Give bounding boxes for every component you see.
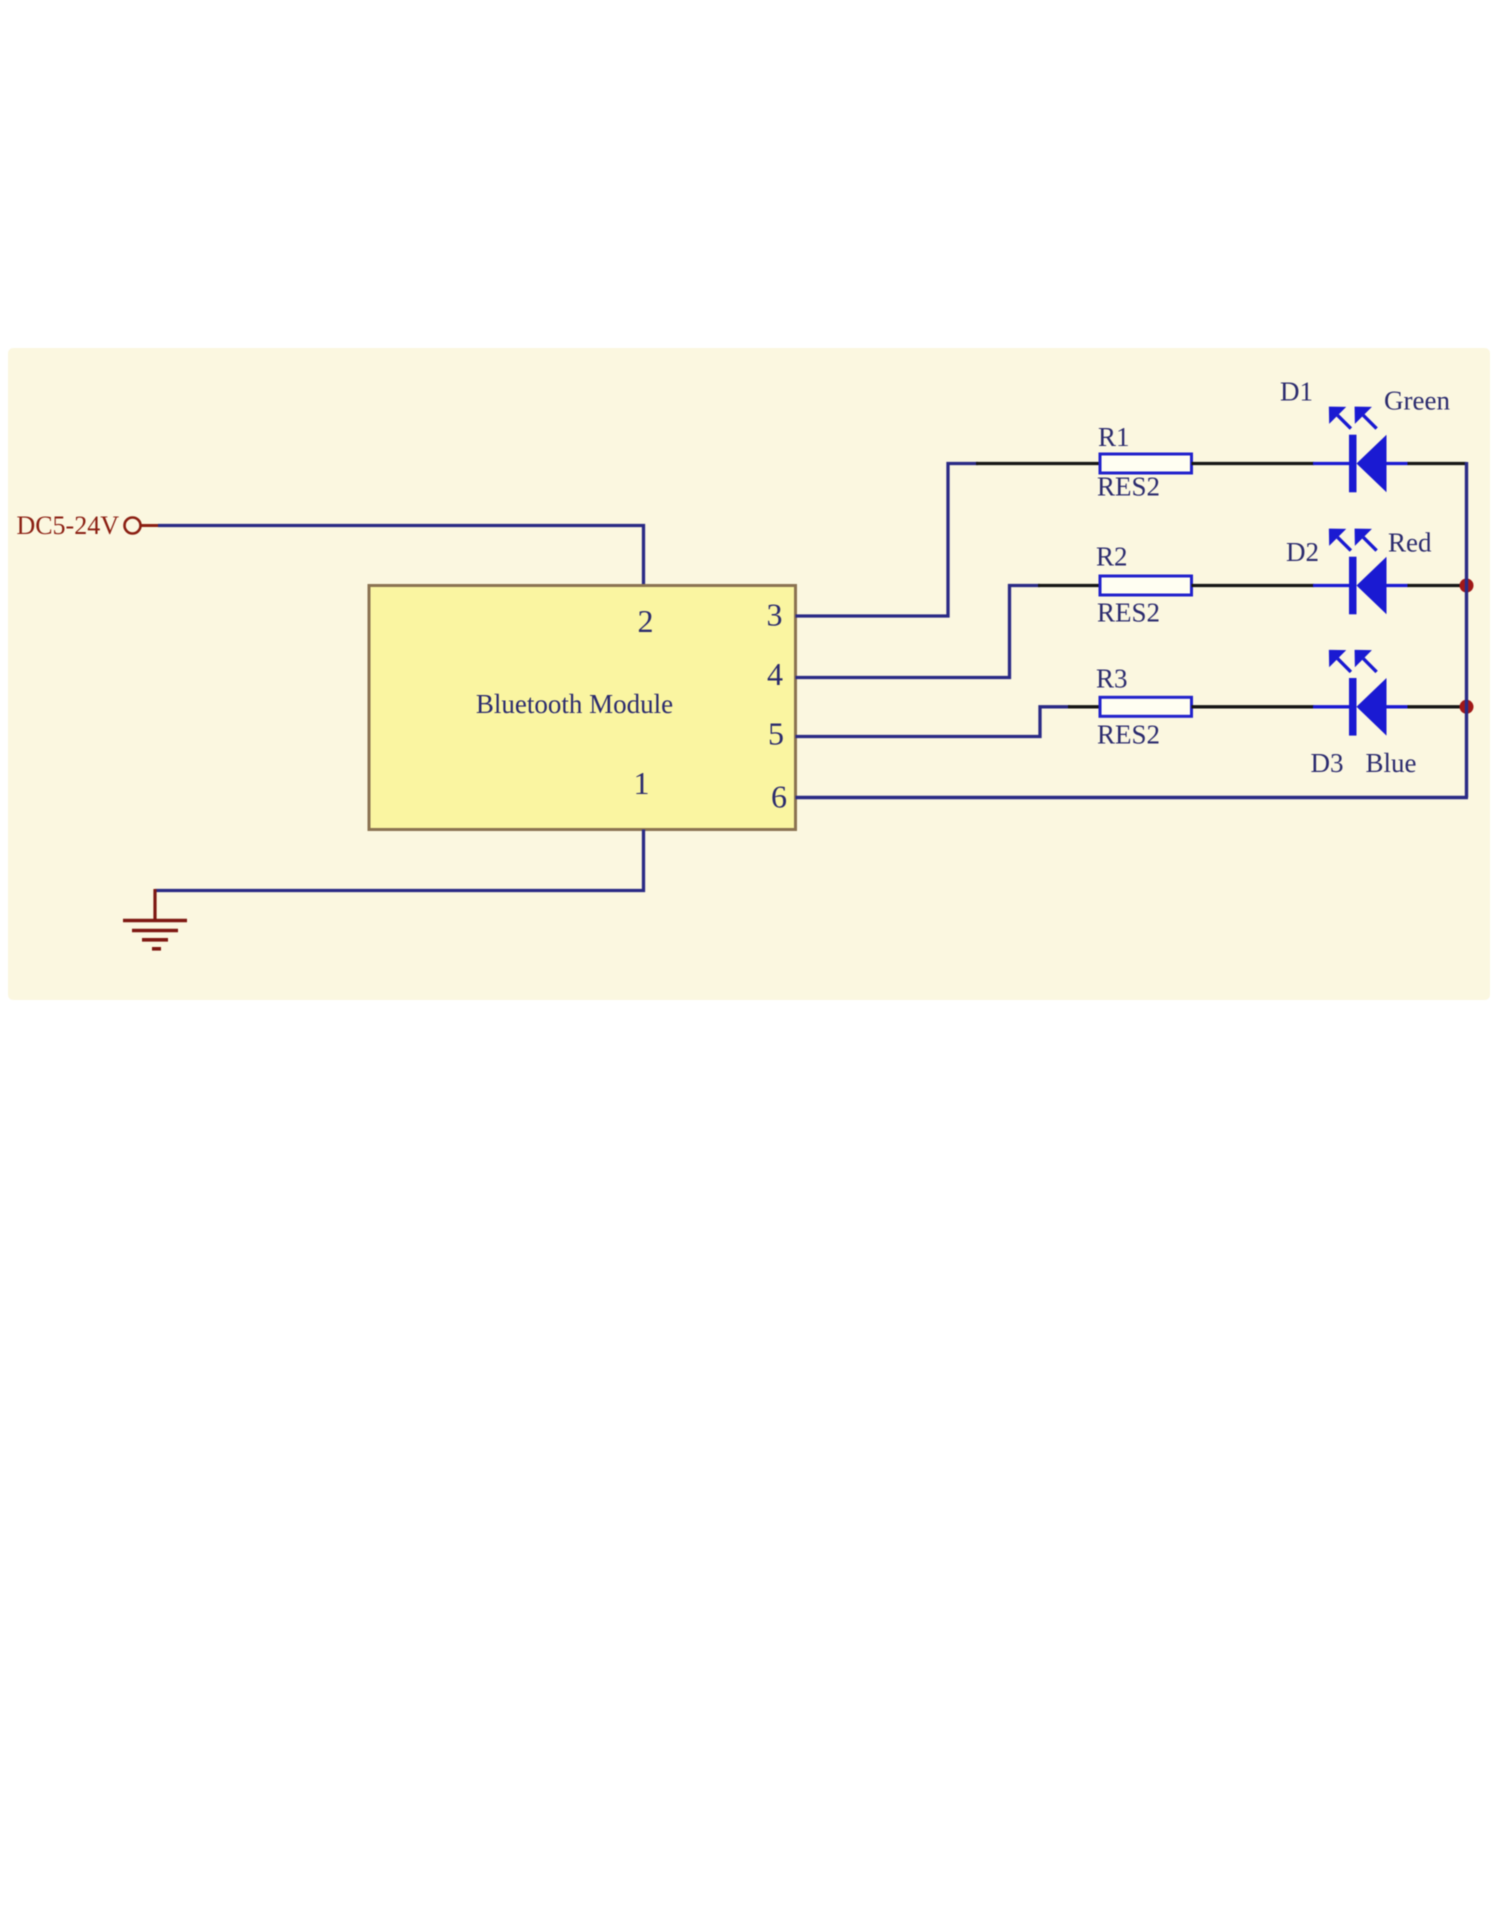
svg-text:R1: R1 (1098, 422, 1130, 452)
right rail (anode bus) (1465, 462, 1468, 798)
D2 lead left (1313, 584, 1350, 587)
schematic sheet background (8, 348, 1490, 1000)
D2 triangle (1357, 557, 1387, 615)
D1 emission arrow 1 (1331, 408, 1351, 428)
wire R2 to D2 (1192, 584, 1315, 587)
module U1 Bluetooth Module box (369, 586, 796, 830)
D3 lead left (1313, 705, 1350, 708)
svg-text:Bluetooth Module: Bluetooth Module (476, 689, 673, 719)
wire pin 4 to R2 (796, 586, 1041, 678)
wire R1 row left (node) (976, 462, 1101, 465)
D1 anode lead left (1313, 462, 1350, 465)
wire R1 to D1 (1192, 462, 1315, 465)
resistor R1 body (1100, 454, 1192, 473)
resistor R3 body (1100, 697, 1192, 716)
svg-text:RES2: RES2 (1097, 720, 1160, 750)
svg-text:5: 5 (768, 716, 784, 752)
wire pin 6 to rail (796, 796, 1469, 799)
svg-text:R3: R3 (1096, 664, 1128, 694)
D2 emission arrow 2 (1356, 530, 1376, 550)
D2 lead right (1387, 584, 1409, 587)
svg-text:6: 6 (771, 779, 787, 815)
svg-text:R2: R2 (1096, 542, 1128, 572)
LED D2 (Red) (1313, 530, 1408, 614)
wire R2 row left (1038, 584, 1101, 587)
wire D3 to rail (1408, 705, 1467, 708)
LED D1 (Green) (1313, 408, 1408, 492)
D1 cathode bar (1349, 435, 1357, 493)
D3 lead right (1387, 705, 1409, 708)
D1 emission arrow 2 (1356, 408, 1376, 428)
D1 triangle (1357, 435, 1387, 493)
wire D2 to rail (1408, 584, 1467, 587)
resistor R2 body (1100, 576, 1192, 595)
svg-text:D3: D3 (1311, 748, 1344, 778)
svg-text:RES2: RES2 (1097, 472, 1160, 502)
D2 emission arrow 1 (1331, 530, 1351, 550)
ground symbol (123, 889, 187, 949)
power terminal stub (141, 524, 159, 527)
svg-text:D1: D1 (1280, 377, 1313, 407)
svg-text:1: 1 (634, 765, 650, 801)
D2 cathode bar (1349, 557, 1357, 615)
junction node D2/rail (1460, 579, 1474, 593)
wire R3 row left (1068, 705, 1101, 708)
svg-text:Red: Red (1388, 528, 1432, 558)
svg-text:2: 2 (638, 603, 654, 639)
svg-text:DC5-24V: DC5-24V (16, 511, 119, 540)
wire D1 to rail (1408, 462, 1467, 465)
D3 triangle (1357, 678, 1387, 736)
svg-text:Green: Green (1384, 386, 1450, 416)
power terminal circle (125, 518, 141, 534)
D3 cathode bar (1349, 678, 1357, 736)
wire DC5-24V to module pin 2 (158, 526, 644, 587)
svg-text:Blue: Blue (1366, 748, 1417, 778)
svg-text:4: 4 (767, 656, 783, 692)
D3 emission arrow 1 (1331, 652, 1351, 672)
wire pin 3 to R1 (796, 464, 979, 617)
svg-text:RES2: RES2 (1097, 598, 1160, 628)
wire R3 to D3 (1192, 705, 1315, 708)
D3 emission arrow 2 (1356, 652, 1376, 672)
D1 lead right (1387, 462, 1409, 465)
junction node D3/rail (1460, 700, 1474, 714)
LED D3 (Blue) (1313, 652, 1408, 736)
wire pin 1 to ground (155, 830, 644, 891)
svg-text:3: 3 (767, 597, 783, 633)
svg-text:D2: D2 (1286, 537, 1319, 567)
wire pin 5 to R3 (796, 707, 1071, 737)
